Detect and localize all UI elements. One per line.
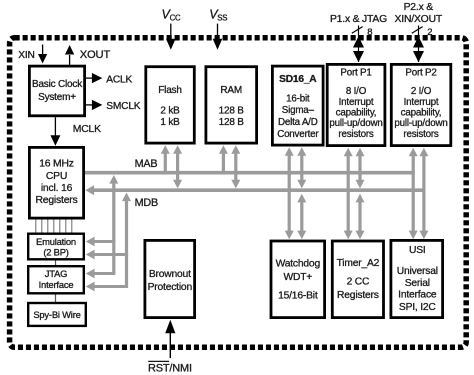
MAB bus (horizontal) (85, 171, 415, 175)
svg-text:MAB: MAB (135, 158, 158, 170)
svg-text:incl. 16: incl. 16 (41, 183, 73, 194)
SD16_A to MDB wire (300, 154, 303, 181)
MAB to Emulation/JTAG wire (112, 181, 115, 274)
svg-text:SMCLK: SMCLK (106, 101, 141, 112)
svg-text:16-bit: 16-bit (286, 93, 310, 104)
svg-text:2: 2 (427, 27, 432, 38)
svg-text:RST/NMI: RST/NMI (148, 363, 192, 375)
XOUT output arrow (69, 55, 71, 65)
svg-text:Protection: Protection (148, 282, 193, 293)
svg-text:2 kB: 2 kB (160, 106, 180, 117)
chip outline dashed border (10, 38, 467, 348)
Basic Clock System+ box (29, 66, 84, 116)
Emulation box (28, 234, 84, 260)
Flash box (146, 67, 195, 143)
svg-text:XOUT: XOUT (80, 49, 111, 61)
MDB bus (horizontal, arrowhead into CPU) (93, 188, 426, 192)
svg-text:P2.x &: P2.x & (404, 2, 434, 13)
svg-text:(2 BP): (2 BP) (43, 247, 68, 258)
svg-text:ACLK: ACLK (106, 75, 132, 86)
svg-text:Interface: Interface (39, 279, 74, 290)
svg-text:XIN/XOUT: XIN/XOUT (395, 14, 443, 25)
MDB to Timer_A2 wire (358, 201, 361, 232)
svg-text:resistors: resistors (403, 129, 439, 140)
RAM to MDB wire (234, 152, 237, 181)
JTAG to Spy-Bi Wire wire (55, 294, 57, 303)
svg-text:resistors: resistors (338, 129, 374, 140)
svg-text:Universal: Universal (397, 266, 438, 277)
svg-text:MCLK: MCLK (73, 124, 101, 135)
svg-text:Interrupt: Interrupt (339, 97, 374, 108)
Port P2 / USI to MDB wire (422, 155, 425, 233)
svg-text:Flash: Flash (158, 85, 181, 96)
svg-text:Converter: Converter (277, 129, 319, 140)
Timer_A2 box (332, 241, 383, 318)
JTAG Interface box (28, 266, 84, 293)
svg-text:Basic Clock: Basic Clock (32, 79, 83, 90)
svg-text:128 B: 128 B (219, 117, 245, 128)
svg-text:capability,: capability, (336, 107, 377, 118)
Port P2 box (391, 64, 451, 145)
Port P1 / Timer_A2 to MAB wire (347, 155, 350, 233)
Emulation to JTAG wire (55, 260, 57, 267)
svg-text:Emulation: Emulation (36, 236, 76, 247)
MCLK arrow from Basic Clock to CPU (54, 117, 56, 136)
svg-text:15/16-Bit: 15/16-Bit (278, 290, 318, 301)
svg-text:Port P1: Port P1 (340, 68, 371, 79)
CPU to Emulation hatch wires (36, 219, 72, 233)
svg-text:1 kB: 1 kB (160, 117, 180, 128)
svg-text:Interface: Interface (398, 290, 437, 301)
svg-text:8: 8 (367, 27, 372, 38)
svg-text:MDB: MDB (135, 197, 158, 209)
Port P1 box (327, 64, 385, 145)
USI box (391, 240, 443, 317)
ACLK output arrow (86, 77, 93, 79)
CPU box (29, 147, 83, 218)
svg-text:Brownout: Brownout (149, 269, 191, 280)
svg-text:Watchdog: Watchdog (276, 259, 321, 270)
svg-text:Port P2: Port P2 (405, 68, 436, 79)
Flash to MDB wire (176, 152, 179, 181)
svg-text:P1.x & JTAG: P1.x & JTAG (330, 14, 387, 25)
svg-text:USI: USI (409, 245, 426, 256)
svg-text:XIN: XIN (18, 50, 34, 61)
RAM to MAB wire (222, 152, 225, 173)
svg-text:Interrupt: Interrupt (404, 97, 439, 108)
svg-text:capability,: capability, (401, 107, 442, 118)
svg-text:Delta A/D: Delta A/D (278, 117, 318, 128)
svg-text:2 I/O: 2 I/O (411, 86, 432, 97)
svg-text:Serial: Serial (405, 278, 430, 289)
MDB to Emulation/JTAG wire (125, 199, 128, 287)
svg-text:2 CC: 2 CC (347, 276, 370, 287)
svg-text:pull-up/down: pull-up/down (329, 118, 382, 129)
svg-text:WDT+: WDT+ (283, 272, 312, 283)
RST/NMI input arrow (169, 333, 171, 358)
svg-text:SD16_A: SD16_A (279, 74, 317, 85)
Watchdog WDT+ box (271, 241, 325, 318)
svg-text:Sigma–: Sigma– (282, 105, 315, 116)
Spy-Bi Wire box (28, 303, 86, 326)
svg-text:8 I/O: 8 I/O (346, 86, 367, 97)
VSS supply arrow (217, 24, 219, 40)
XIN input arrow (42, 45, 44, 56)
svg-text:Timer_A2: Timer_A2 (337, 258, 380, 269)
svg-text:CPU: CPU (46, 171, 67, 182)
svg-text:Registers: Registers (35, 195, 77, 206)
svg-text:pull-up/down: pull-up/down (394, 118, 447, 129)
svg-text:128 B: 128 B (219, 106, 245, 117)
svg-text:16 MHz: 16 MHz (39, 159, 74, 170)
svg-text:Spy-Bi Wire: Spy-Bi Wire (33, 309, 80, 320)
svg-text:Registers: Registers (337, 290, 379, 301)
Port P1 to MDB wire (358, 155, 361, 181)
RAM box (206, 67, 257, 143)
svg-text:RAM: RAM (220, 85, 242, 96)
Brownout Protection box (145, 240, 195, 317)
MDB to Watchdog wire (300, 201, 303, 232)
Port P2 / USI to MAB wire (412, 155, 415, 233)
SD16_A / Watchdog to MAB wire (288, 154, 291, 232)
P2.x & XIN/XOUT double arrow with slash and 2 (418, 26, 420, 63)
svg-text:System+: System+ (38, 92, 76, 103)
svg-text:SPI, I2C: SPI, I2C (399, 302, 437, 313)
SMCLK output arrow (86, 104, 93, 106)
svg-text:SS: SS (217, 14, 227, 23)
svg-text:JTAG: JTAG (45, 268, 67, 279)
P1.x & JTAG double arrow with slash and 8 (358, 26, 360, 63)
Flash to MAB wire (164, 152, 167, 173)
VCC supply arrow (170, 24, 172, 40)
SD16_A box (272, 66, 323, 145)
svg-text:CC: CC (170, 14, 181, 23)
